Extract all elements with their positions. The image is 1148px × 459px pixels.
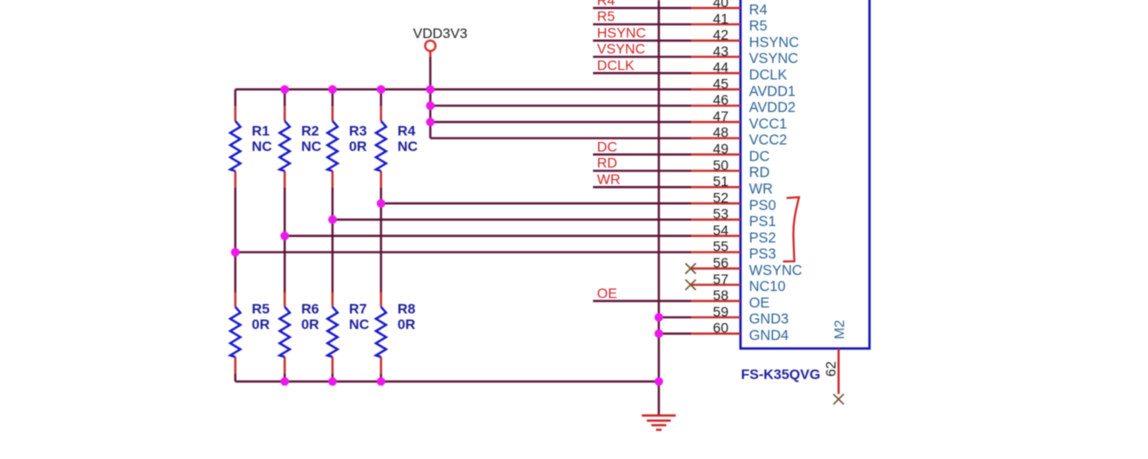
svg-text:58: 58 [713, 287, 729, 303]
svg-text:VSYNC: VSYNC [749, 51, 798, 67]
pin 59 stub [691, 316, 741, 318]
svg-text:DC: DC [749, 149, 770, 165]
resistor R5 value 0R [234, 292, 236, 307]
svg-text:PS3: PS3 [749, 247, 776, 263]
svg-text:VCC1: VCC1 [749, 116, 787, 132]
svg-text:R4: R4 [597, 0, 615, 8]
wire VDD column to pin 46 [430, 105, 691, 107]
wire PS0 from resistor column to pin 52 [381, 202, 691, 204]
pin 49 stub [691, 153, 741, 155]
svg-text:R4: R4 [398, 123, 416, 139]
svg-text:NC: NC [398, 138, 418, 154]
svg-text:HSYNC: HSYNC [749, 35, 799, 51]
pin 46 stub [691, 105, 741, 107]
resistor R8 value 0R [380, 292, 382, 307]
power port VDD3V3 [425, 41, 435, 51]
pin 43 stub [691, 56, 741, 58]
resistor R1 value NC [234, 106, 236, 121]
svg-text:R8: R8 [398, 301, 416, 317]
svg-text:42: 42 [713, 27, 729, 43]
svg-text:DCLK: DCLK [749, 68, 788, 84]
svg-text:0R: 0R [301, 316, 319, 332]
resistor R6 value 0R [284, 292, 286, 307]
svg-text:WR: WR [749, 182, 773, 198]
resistor R7 value NC [331, 292, 333, 307]
svg-text:R3: R3 [349, 123, 367, 139]
no-connect X at pin [685, 263, 695, 273]
svg-text:NC: NC [349, 316, 369, 332]
pin 48 stub [691, 137, 741, 139]
wire VDD column corner to pin 48 [430, 137, 691, 139]
svg-text:0R: 0R [349, 138, 367, 154]
wire VDD column to pin 47 [430, 121, 691, 123]
svg-text:52: 52 [713, 189, 729, 205]
svg-text:45: 45 [713, 75, 729, 91]
svg-text:53: 53 [713, 206, 729, 222]
resistor R3 value 0R [331, 106, 333, 121]
svg-text:PS1: PS1 [749, 214, 776, 230]
svg-text:59: 59 [713, 303, 729, 319]
svg-text:PS0: PS0 [749, 198, 776, 214]
svg-text:R6: R6 [301, 301, 319, 317]
svg-text:DC: DC [597, 138, 617, 154]
svg-text:NC: NC [301, 138, 321, 154]
pin 53 stub [691, 219, 741, 221]
wire GND column to pin 59 [659, 316, 691, 318]
pin 41 stub [691, 23, 741, 25]
pin 44 stub [691, 72, 741, 74]
svg-text:FS-K35QVG: FS-K35QVG [741, 366, 820, 382]
svg-text:R5: R5 [749, 19, 767, 35]
pin 50 stub [691, 170, 741, 172]
wire net VSYNC to pin 43 [593, 56, 691, 58]
bracket marking PS0-PS3 [783, 197, 799, 261]
svg-text:44: 44 [713, 59, 729, 75]
wire GND column to pin 60 [659, 333, 691, 335]
svg-text:GND3: GND3 [749, 312, 789, 328]
svg-text:R7: R7 [349, 301, 367, 317]
svg-text:WR: WR [597, 171, 620, 187]
svg-text:49: 49 [713, 141, 729, 157]
svg-text:62: 62 [822, 361, 838, 377]
connector U? M2 FS-K35QVG body [741, 0, 870, 349]
pin 42 stub [691, 39, 741, 41]
svg-text:R2: R2 [301, 123, 319, 139]
svg-text:NC10: NC10 [749, 279, 786, 295]
svg-text:R5: R5 [252, 301, 270, 317]
svg-text:RD: RD [749, 165, 770, 181]
svg-text:GND4: GND4 [749, 328, 789, 344]
svg-text:VDD3V3: VDD3V3 [413, 25, 468, 41]
pin 56 stub [692, 267, 741, 269]
pin 62 stub [837, 349, 839, 395]
no-connect X at pin [685, 280, 695, 290]
wire VDD3V3 column [429, 51, 431, 57]
resistor R4 value NC [380, 106, 382, 121]
no-connect X at pin [833, 394, 843, 404]
svg-text:54: 54 [713, 222, 729, 238]
pin 51 stub [691, 186, 741, 188]
svg-text:R1: R1 [252, 123, 270, 139]
svg-text:51: 51 [713, 173, 729, 189]
ground symbol [642, 416, 676, 430]
wire GND vertical net [658, 0, 660, 415]
svg-text:43: 43 [713, 43, 729, 59]
junction dots [280, 85, 289, 94]
pin 45 stub [691, 88, 741, 90]
wire net HSYNC to pin 42 [593, 39, 691, 41]
svg-text:HSYNC: HSYNC [597, 24, 646, 40]
svg-text:40: 40 [713, 0, 729, 10]
wire net OE to pin 58 [593, 300, 691, 302]
wire PS2 from resistor column to pin 54 [285, 235, 691, 237]
pin 52 stub [691, 202, 741, 204]
svg-text:55: 55 [713, 238, 729, 254]
svg-text:50: 50 [713, 157, 729, 173]
svg-text:48: 48 [713, 124, 729, 140]
svg-text:VSYNC: VSYNC [597, 41, 645, 57]
svg-text:RD: RD [597, 155, 617, 171]
svg-text:M2: M2 [831, 320, 847, 340]
svg-text:47: 47 [713, 108, 729, 124]
wire PS1 from resistor column to pin 53 [333, 219, 692, 221]
svg-text:46: 46 [713, 92, 729, 108]
wire net DCLK to pin 44 [593, 72, 691, 74]
resistor R2 value NC [284, 106, 286, 121]
svg-text:WSYNC: WSYNC [749, 263, 802, 279]
pin 57 stub [692, 284, 741, 286]
svg-text:41: 41 [713, 10, 729, 26]
wire net R4 to pin 40 [593, 7, 691, 9]
pin 60 stub [691, 333, 741, 335]
svg-text:AVDD1: AVDD1 [749, 84, 796, 100]
svg-text:OE: OE [597, 285, 617, 301]
svg-text:OE: OE [749, 295, 770, 311]
wire net R5 to pin 41 [593, 23, 691, 25]
svg-text:DCLK: DCLK [597, 57, 635, 73]
svg-text:R5: R5 [597, 8, 615, 24]
svg-text:R4: R4 [749, 2, 767, 18]
svg-text:AVDD2: AVDD2 [749, 100, 796, 116]
svg-text:57: 57 [713, 271, 729, 287]
wire net RD to pin 50 [593, 170, 691, 172]
wire PS3 from resistor column to pin 55 [235, 251, 691, 253]
wire net WR to pin 51 [593, 186, 691, 188]
pin 40 stub [691, 7, 741, 9]
pin 54 stub [691, 235, 741, 237]
pin 47 stub [691, 121, 741, 123]
svg-text:NC: NC [252, 138, 272, 154]
svg-text:PS2: PS2 [749, 230, 776, 246]
wire resistor columns vertical segments [234, 89, 236, 106]
pin 55 stub [691, 251, 741, 253]
wire bottom bus [235, 380, 659, 382]
svg-text:56: 56 [713, 255, 729, 271]
svg-text:VCC2: VCC2 [749, 133, 787, 149]
svg-text:0R: 0R [398, 316, 416, 332]
svg-text:0R: 0R [252, 316, 270, 332]
wire top bus to pin 45 (AVDD1) [235, 88, 691, 90]
svg-text:60: 60 [713, 320, 729, 336]
wire net DC to pin 49 [593, 153, 691, 155]
pin 58 stub [691, 300, 741, 302]
